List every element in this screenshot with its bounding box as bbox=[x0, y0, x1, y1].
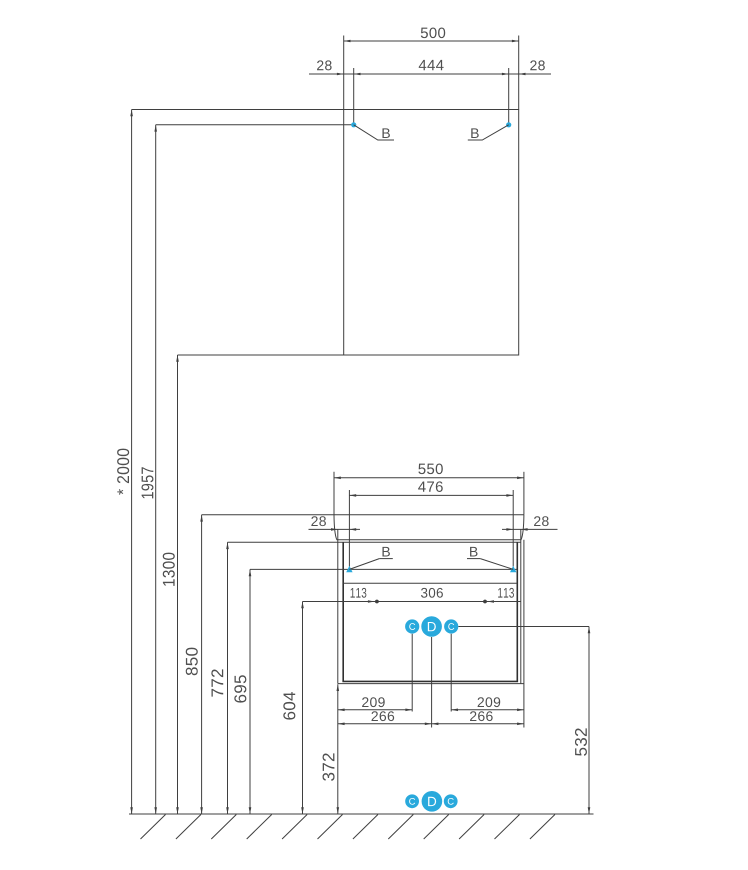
dim 28 left label (cabinet) bbox=[311, 516, 326, 526]
label B right (mirror) bbox=[471, 128, 478, 138]
extension washbasin right edge down bbox=[523, 540, 525, 728]
label * 2000 bbox=[117, 449, 129, 495]
arrows for 372 bbox=[337, 684, 340, 691]
vertical dimension line 604 bbox=[302, 602, 304, 815]
label 532 bbox=[575, 728, 587, 755]
drain point C left bbox=[405, 619, 419, 633]
mirror mounting point B right (blue dot) bbox=[506, 122, 511, 127]
leader 604 / dim line 113-306-113 bbox=[303, 601, 521, 603]
dim 28 left (cabinet) bbox=[309, 528, 361, 530]
arrows for 1957 bbox=[154, 125, 157, 132]
label 1957 bbox=[141, 467, 153, 498]
extension from D bbox=[431, 637, 433, 728]
dim 476 label bbox=[418, 481, 443, 492]
washbasin right edge bbox=[521, 515, 524, 540]
arrows 306 dim bbox=[368, 600, 375, 603]
leader line B left (cabinet) bbox=[349, 559, 379, 570]
leader 772 / cabinet top edge bbox=[228, 541, 521, 543]
leader 1957 to mounting dot bbox=[156, 124, 352, 126]
vertical dimension line 532 bbox=[588, 627, 590, 815]
dim point right bbox=[483, 600, 487, 604]
dim 550 line bbox=[334, 477, 524, 479]
leader 2000 to mirror top bbox=[132, 109, 344, 111]
dim 500 extension lines bbox=[343, 36, 345, 110]
extension from C right bbox=[450, 634, 452, 712]
washbasin bottom edge bbox=[337, 539, 522, 541]
dim 500 label bbox=[421, 28, 445, 39]
drain point C right bbox=[444, 619, 458, 633]
arrows for 1300 bbox=[176, 355, 179, 362]
vertical dimension line 1300 bbox=[177, 355, 179, 814]
label 604 bbox=[283, 692, 295, 720]
dim 28 right label (cabinet) bbox=[534, 516, 549, 526]
dim 209 right bbox=[451, 709, 524, 711]
floor drain point C left bbox=[405, 794, 419, 808]
leader line B right (mirror) bbox=[468, 125, 509, 140]
floor drain point C right bbox=[444, 794, 458, 808]
dim 28 left label bbox=[317, 60, 332, 70]
label B left (mirror) bbox=[382, 128, 389, 138]
arrows for 850 bbox=[200, 515, 203, 522]
leader 1300 / mirror bottom bbox=[178, 354, 519, 356]
dim 28 right (cabinet) bbox=[502, 528, 558, 530]
label 772 bbox=[211, 669, 223, 696]
dim point left bbox=[375, 600, 379, 604]
vertical dimension line 372 bbox=[337, 684, 339, 814]
arrows for * 2000 bbox=[130, 110, 133, 117]
dim 444 label bbox=[419, 60, 444, 70]
ground line bbox=[129, 813, 594, 815]
cabinet drawer top line bbox=[343, 582, 517, 584]
dim 28 right label bbox=[530, 60, 545, 70]
mirror mounting point B left (blue dot) bbox=[351, 122, 356, 127]
dim 266 left label bbox=[372, 711, 395, 721]
dim 209 left label bbox=[362, 697, 385, 707]
dim 266 right label bbox=[470, 711, 493, 721]
vertical dimension line 1957 bbox=[155, 125, 157, 814]
mounting point B right triangle (cabinet) bbox=[510, 566, 516, 573]
arrows for 695 bbox=[249, 569, 252, 576]
cabinet inner bottom bbox=[342, 680, 518, 682]
leader 532 from C circle bbox=[458, 626, 589, 628]
dim 209 right label bbox=[478, 697, 501, 707]
dim 444 extension lines bbox=[353, 68, 355, 124]
vertical dimension line 695 bbox=[249, 569, 251, 814]
label 695 bbox=[234, 675, 246, 702]
washbasin left edge bbox=[334, 515, 337, 540]
dim 476 line bbox=[349, 494, 513, 496]
dim arrows 28-444-28 bbox=[337, 73, 344, 76]
arrows for 604 bbox=[301, 602, 304, 609]
mounting point B left triangle (cabinet) bbox=[346, 566, 352, 573]
dim 550 extension lines bbox=[333, 472, 335, 515]
dim 266 left bbox=[338, 723, 432, 725]
dim 500 line bbox=[344, 40, 519, 42]
cabinet inner side walls bbox=[342, 542, 344, 681]
dim 113 right label bbox=[498, 588, 514, 598]
floor drain point D center bbox=[422, 791, 443, 812]
label B left (cabinet) bbox=[382, 547, 389, 557]
extension from C left bbox=[411, 634, 413, 712]
vertical dimension line * 2000 bbox=[131, 110, 133, 815]
mirror cabinet outline bbox=[344, 110, 519, 356]
leader line B left (mirror) bbox=[354, 125, 394, 140]
vertical dimension line 850 bbox=[201, 515, 203, 814]
leader line B right (cabinet) bbox=[480, 559, 513, 570]
leader 850 / washbasin top edge bbox=[202, 514, 524, 516]
dim line 28-444-28 bbox=[309, 73, 551, 75]
dim 266 right bbox=[432, 723, 524, 725]
label B right (cabinet) bbox=[470, 547, 477, 557]
cabinet outer side walls bbox=[337, 542, 339, 683]
drain point D center bbox=[421, 616, 442, 637]
leader 695 / cabinet rail line bbox=[250, 568, 517, 570]
ground hatching bbox=[141, 815, 166, 840]
dim 209 left bbox=[338, 709, 412, 711]
label 372 bbox=[323, 753, 335, 780]
label 850 bbox=[186, 648, 198, 676]
dim 550 label bbox=[418, 464, 442, 475]
cabinet outer bottom bbox=[338, 683, 524, 685]
dim 476 extension / B lines bbox=[348, 490, 350, 567]
arrows for 772 bbox=[226, 542, 229, 549]
dim 113 left label bbox=[351, 588, 367, 598]
dim 306 label bbox=[421, 588, 443, 598]
label 1300 bbox=[163, 553, 175, 586]
vertical dimension line 772 bbox=[227, 542, 229, 814]
